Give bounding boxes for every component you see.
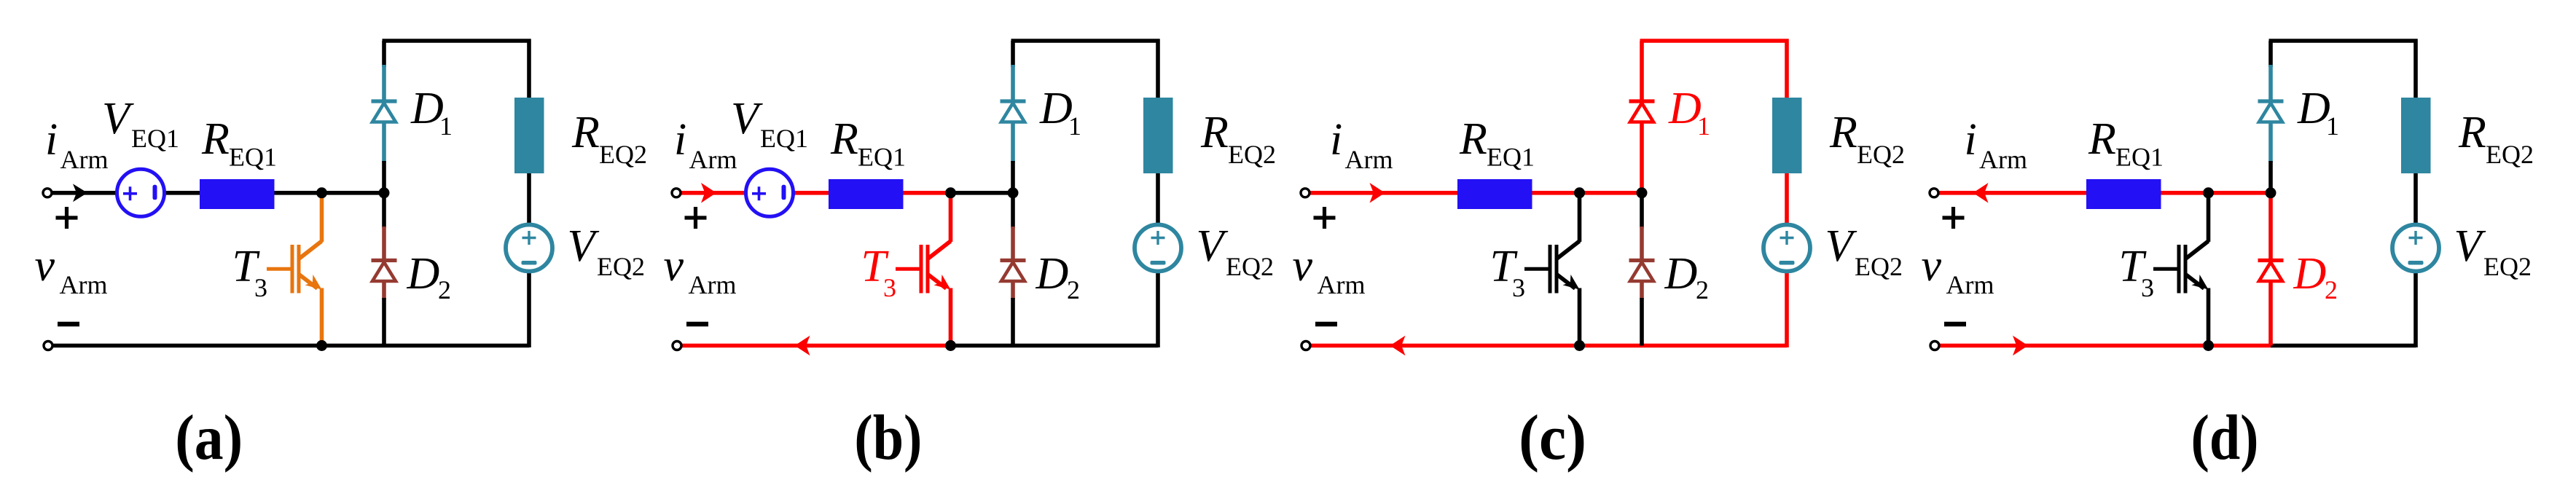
svg-text:EQ1: EQ1 [229,143,277,172]
svg-text:R: R [2088,114,2116,164]
svg-text:2: 2 [1696,275,1709,304]
svg-text:EQ1: EQ1 [760,124,808,153]
svg-text:EQ2: EQ2 [1226,252,1274,281]
svg-text:V: V [2454,221,2486,271]
svg-text:V: V [1825,221,1857,271]
svg-text:EQ2: EQ2 [599,140,647,169]
svg-text:1: 1 [1697,111,1710,141]
svg-text:Arm: Arm [1345,145,1393,174]
svg-text:D: D [410,84,444,133]
svg-text:Arm: Arm [1946,270,1994,299]
svg-text:1: 1 [2326,111,2339,141]
svg-text:D: D [2297,84,2330,133]
svg-text:D: D [1664,249,1698,299]
svg-text:V: V [102,94,134,143]
svg-text:2: 2 [1067,275,1080,304]
svg-text:EQ1: EQ1 [858,143,906,172]
svg-text:v: v [35,241,55,291]
svg-text:R: R [2458,108,2486,157]
svg-text:EQ2: EQ2 [1857,140,1905,169]
svg-text:(b): (b) [854,403,922,473]
svg-text:R: R [571,108,600,157]
svg-text:Arm: Arm [1979,145,2027,174]
svg-text:EQ2: EQ2 [1855,252,1903,281]
svg-text:EQ2: EQ2 [2486,140,2534,169]
svg-text:3: 3 [2141,273,2154,302]
svg-text:2: 2 [438,275,451,304]
svg-text:i: i [674,115,686,165]
svg-text:Arm: Arm [689,270,737,299]
svg-text:1: 1 [439,111,453,141]
svg-text:Arm: Arm [60,145,109,174]
svg-text:EQ2: EQ2 [597,252,645,281]
svg-text:EQ2: EQ2 [1228,140,1276,169]
svg-text:R: R [1200,108,1229,157]
svg-text:V: V [1197,221,1229,271]
svg-text:i: i [45,115,58,165]
svg-text:(a): (a) [175,403,243,473]
svg-text:D: D [1039,84,1073,133]
svg-text:v: v [1922,241,1942,291]
svg-text:Arm: Arm [1318,270,1366,299]
svg-text:3: 3 [883,273,896,302]
svg-text:D: D [1036,249,1069,299]
svg-text:R: R [201,114,230,164]
svg-text:EQ1: EQ1 [131,124,179,153]
svg-text:D: D [2293,249,2327,299]
svg-text:Arm: Arm [689,145,737,174]
svg-text:EQ1: EQ1 [1487,143,1535,172]
svg-text:V: V [731,94,763,143]
svg-text:R: R [830,114,858,164]
svg-text:v: v [664,241,684,291]
svg-text:D: D [1668,84,1702,133]
svg-text:(c): (c) [1519,403,1586,473]
svg-text:R: R [1829,108,1857,157]
svg-text:1: 1 [1068,111,1081,141]
svg-text:EQ2: EQ2 [2483,252,2532,281]
svg-text:(d): (d) [2191,403,2259,473]
svg-text:3: 3 [1512,273,1525,302]
svg-text:R: R [1459,114,1487,164]
svg-text:Arm: Arm [60,270,108,299]
svg-text:i: i [1330,115,1342,165]
svg-text:2: 2 [2325,275,2338,304]
svg-text:3: 3 [254,273,267,302]
svg-text:i: i [1965,115,1977,165]
svg-text:V: V [568,221,600,271]
svg-text:D: D [407,249,440,299]
svg-text:EQ1: EQ1 [2115,143,2164,172]
svg-text:v: v [1293,241,1313,291]
